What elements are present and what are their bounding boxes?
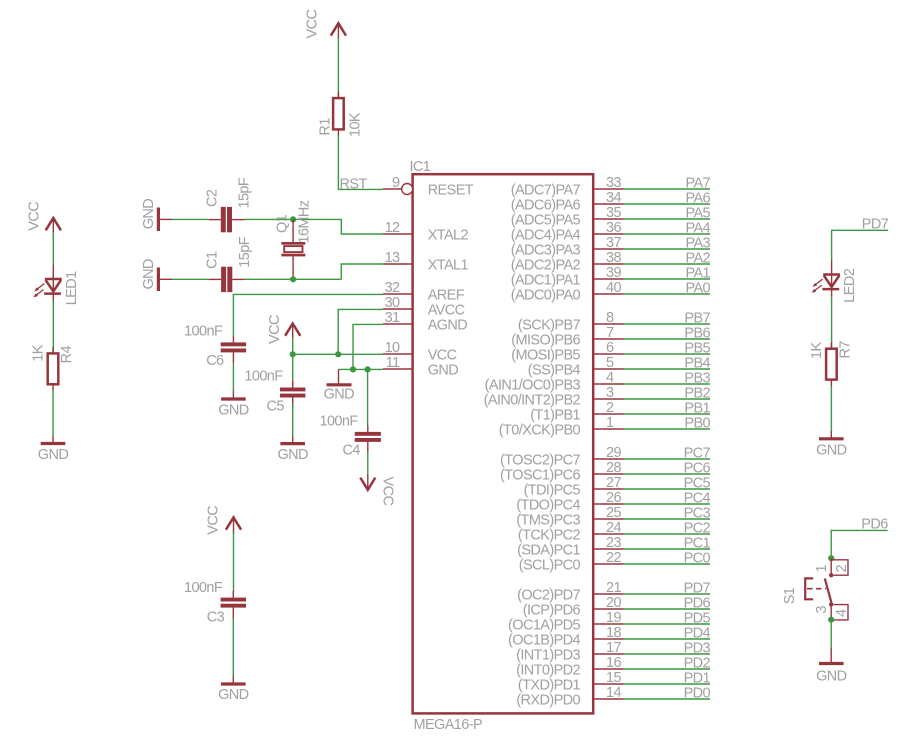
svg-text:15: 15 (606, 670, 621, 686)
LED LED1 (33, 265, 80, 305)
IC1 pin 6 (MOSI)PB5 with wire and net label PB5 (511, 340, 710, 364)
svg-text:GND: GND (141, 199, 157, 230)
svg-text:C4: C4 (343, 443, 361, 459)
svg-text:PA3: PA3 (685, 236, 710, 252)
svg-text:14: 14 (606, 685, 621, 701)
IC1 pin 24 (TCK)PC2 with wire and net label PC2 (518, 520, 711, 544)
capacitor C4 100nF (320, 414, 381, 459)
IC1 pin 34 (ADC6)PA6 with wire and net label PA6 (511, 190, 711, 214)
svg-text:(TOSC1)PC6: (TOSC1)PC6 (500, 467, 580, 483)
svg-text:VCC: VCC (428, 347, 457, 363)
svg-text:PB1: PB1 (684, 401, 710, 417)
svg-text:4: 4 (834, 609, 850, 617)
svg-text:PC7: PC7 (684, 446, 711, 462)
svg-text:13: 13 (385, 250, 400, 266)
svg-text:(INT0)PD2: (INT0)PD2 (516, 662, 580, 678)
power symbol VCC above LED1 (27, 202, 61, 234)
svg-text:16MHz: 16MHz (296, 200, 312, 243)
svg-text:30: 30 (385, 295, 400, 311)
svg-text:PA6: PA6 (685, 191, 710, 207)
svg-text:GND: GND (141, 259, 157, 290)
svg-text:40: 40 (606, 280, 621, 296)
node junction below Q1 (290, 276, 296, 282)
svg-text:100nF: 100nF (244, 369, 283, 385)
resistor R7 1K (809, 341, 854, 386)
svg-text:(ADC0)PA0: (ADC0)PA0 (511, 287, 581, 303)
wire S1 to GND (830, 620, 832, 649)
svg-text:LED2: LED2 (842, 268, 858, 302)
svg-text:RST: RST (340, 176, 368, 192)
ground below C3 (218, 677, 249, 704)
svg-text:(SCL)PC0: (SCL)PC0 (519, 557, 581, 573)
svg-text:(TXD)PD1: (TXD)PD1 (518, 677, 581, 693)
svg-text:1K: 1K (809, 342, 825, 359)
svg-text:(TMS)PC3: (TMS)PC3 (516, 512, 580, 528)
ground at pin 11 (middle) (324, 369, 355, 402)
IC1 pin 1 (T0/XCK)PB0 with wire and net label PB0 (499, 415, 711, 439)
IC1 pin 38 (ADC2)PA2 with wire and net label PA2 (511, 250, 711, 274)
IC1 pin 30 AVCC (383, 295, 465, 319)
IC1 pin 27 (TDI)PC5 with wire and net label PC5 (524, 475, 711, 499)
IC1 pin 11 GND (383, 355, 458, 379)
svg-text:21: 21 (606, 580, 621, 596)
svg-text:GND: GND (38, 447, 69, 463)
capacitor C6 100nF (184, 324, 246, 369)
svg-text:15pF: 15pF (236, 177, 252, 208)
svg-text:PC5: PC5 (684, 476, 711, 492)
ground below C6 (218, 392, 249, 419)
IC1 pin 31 AGND (383, 310, 467, 334)
resistor R1 10K (318, 92, 364, 137)
svg-text:GND: GND (218, 687, 249, 703)
IC1 pin 12 XTAL2 (383, 220, 468, 244)
wire GND to C2 (172, 218, 208, 220)
svg-text:33: 33 (606, 175, 621, 191)
wire VCC arrow down to pin 10 row (292, 338, 294, 354)
node junction VCC row / C5 (290, 351, 296, 357)
svg-text:(ADC1)PA1: (ADC1)PA1 (511, 272, 581, 288)
svg-text:PD5: PD5 (684, 611, 711, 627)
IC1 pin 9 RESET (383, 175, 474, 199)
svg-text:100nF: 100nF (184, 580, 223, 596)
svg-text:PB4: PB4 (684, 356, 710, 372)
IC1 pin 28 (TOSC1)PC6 with wire and net label PC6 (500, 460, 710, 484)
IC1 pin 20 (ICP)PD6 with wire and net label PD6 (523, 595, 711, 619)
svg-text:(ADC4)PA4: (ADC4)PA4 (511, 227, 581, 243)
svg-text:C6: C6 (206, 353, 224, 369)
wire VCC junction down to C5 (292, 354, 294, 381)
IC1 pin 3 (AIN0/INT2)PB2 with wire and net label PB2 (484, 385, 711, 409)
power symbol VCC above C3 (206, 506, 242, 535)
svg-text:GND: GND (428, 362, 459, 378)
ground below R7 (816, 431, 847, 458)
svg-text:PC1: PC1 (684, 536, 711, 552)
svg-text:10K: 10K (348, 112, 364, 137)
resistor R4 1K (31, 344, 75, 391)
svg-text:25: 25 (606, 505, 621, 521)
svg-text:36: 36 (606, 220, 621, 236)
wire GND to C1 (172, 278, 209, 280)
svg-text:PD2: PD2 (684, 656, 711, 672)
IC1 pin 16 (INT0)PD2 with wire and net label PD2 (516, 655, 710, 679)
wire R1 to RESET pin 9, net RST (338, 135, 383, 192)
svg-text:(TOSC2)PC7: (TOSC2)PC7 (500, 452, 580, 468)
svg-text:(OC1A)PD5: (OC1A)PD5 (508, 617, 580, 633)
IC1 pin 37 (ADC3)PA3 with wire and net label PA3 (511, 235, 711, 259)
IC1 pin 10 VCC (383, 340, 457, 364)
svg-text:PC2: PC2 (684, 521, 711, 537)
IC1 pin 21 (OC2)PD7 with wire and net label PD7 (517, 580, 710, 604)
power symbol VCC inverted below C4 (360, 474, 395, 505)
svg-text:C2: C2 (204, 189, 220, 207)
svg-text:PA1: PA1 (685, 266, 710, 282)
svg-text:AGND: AGND (428, 317, 468, 333)
svg-text:PB0: PB0 (684, 416, 710, 432)
svg-text:(ADC5)PA5: (ADC5)PA5 (511, 212, 581, 228)
IC1 pin 33 (ADC7)PA7 with wire and net label PA7 (511, 175, 711, 199)
LED LED2 (812, 261, 858, 303)
svg-text:PD6: PD6 (684, 596, 711, 612)
ground below C5 (277, 436, 308, 463)
svg-text:6: 6 (606, 340, 614, 356)
svg-text:C3: C3 (207, 610, 225, 626)
capacitor C5 100nF (244, 369, 305, 415)
node junction VCC row / AVCC branch (335, 351, 341, 357)
svg-text:PA4: PA4 (685, 221, 710, 237)
svg-text:R4: R4 (59, 346, 75, 364)
svg-text:3: 3 (606, 385, 614, 401)
svg-text:PB7: PB7 (684, 311, 710, 327)
svg-text:GND: GND (277, 447, 308, 463)
svg-text:22: 22 (606, 550, 621, 566)
wire C1 to node and to XTAL1 pin 13 (245, 264, 383, 279)
svg-text:3: 3 (814, 606, 830, 614)
svg-text:(SDA)PC1: (SDA)PC1 (517, 542, 580, 558)
svg-text:MEGA16-P: MEGA16-P (414, 717, 483, 733)
wire LED1 to R4 (52, 301, 54, 353)
svg-text:VCC: VCC (27, 202, 43, 231)
svg-text:VCC: VCC (379, 477, 395, 506)
crystal Q1 16MHz (275, 200, 313, 279)
svg-text:16: 16 (606, 655, 621, 671)
wire VCC to R1 (337, 38, 339, 98)
capacitor C3 100nF (184, 580, 246, 625)
svg-text:(AIN1/OC0)PB3: (AIN1/OC0)PB3 (485, 377, 581, 393)
svg-text:PC6: PC6 (684, 461, 711, 477)
svg-text:(INT1)PD3: (INT1)PD3 (516, 647, 580, 663)
svg-text:(OC1B)PD4: (OC1B)PD4 (508, 632, 580, 648)
wire R4 to GND (52, 390, 54, 437)
svg-text:VCC: VCC (305, 10, 321, 39)
svg-text:(MOSI)PB5: (MOSI)PB5 (511, 347, 580, 363)
svg-text:(T0/XCK)PB0: (T0/XCK)PB0 (499, 422, 581, 438)
IC1 pin 32 AREF (383, 280, 465, 304)
ground left of C1 (rotated) (141, 259, 172, 291)
IC1 pin 39 (ADC1)PA1 with wire and net label PA1 (511, 265, 711, 289)
svg-text:15pF: 15pF (237, 236, 253, 267)
wire C2 to node and to XTAL2 pin 12 (245, 219, 384, 234)
svg-text:PA2: PA2 (685, 251, 710, 267)
svg-text:100nF: 100nF (320, 414, 359, 430)
svg-text:(OC2)PD7: (OC2)PD7 (517, 587, 580, 603)
svg-text:19: 19 (606, 610, 621, 626)
svg-text:PD1: PD1 (684, 671, 711, 687)
svg-text:(ADC3)PA3: (ADC3)PA3 (511, 242, 581, 258)
svg-text:R1: R1 (318, 118, 334, 136)
IC1 pin 19 (OC1A)PD5 with wire and net label PD5 (508, 610, 710, 634)
wire pin 10 row (293, 353, 383, 355)
power symbol VCC above R1 (305, 10, 347, 40)
svg-text:(SS)PB4: (SS)PB4 (528, 362, 581, 378)
svg-text:23: 23 (606, 535, 621, 551)
svg-text:20: 20 (606, 595, 621, 611)
svg-text:(TDI)PC5: (TDI)PC5 (524, 482, 581, 498)
svg-text:2: 2 (606, 400, 614, 416)
svg-text:2: 2 (834, 565, 850, 573)
svg-text:C5: C5 (267, 399, 285, 415)
wire VCC to C3 (233, 532, 235, 592)
svg-text:PB2: PB2 (684, 386, 710, 402)
svg-text:(ADC7)PA7: (ADC7)PA7 (511, 182, 581, 198)
svg-text:26: 26 (606, 490, 621, 506)
svg-text:(TCK)PC2: (TCK)PC2 (518, 527, 581, 543)
svg-text:(T1)PB1: (T1)PB1 (530, 407, 580, 423)
svg-text:11: 11 (386, 355, 400, 371)
svg-text:1: 1 (606, 415, 614, 431)
svg-text:C1: C1 (205, 251, 221, 269)
svg-text:PB5: PB5 (684, 341, 710, 357)
svg-text:IC1: IC1 (410, 159, 431, 175)
svg-text:7: 7 (606, 325, 614, 341)
svg-text:39: 39 (606, 265, 621, 281)
wire C3 to GND (232, 619, 234, 678)
svg-text:1: 1 (814, 565, 830, 573)
IC1 pin 7 (MISO)PB6 with wire and net label PB6 (511, 325, 710, 349)
svg-text:32: 32 (385, 280, 400, 296)
svg-text:VCC: VCC (267, 315, 283, 344)
svg-text:XTAL1: XTAL1 (428, 257, 469, 273)
IC1 pin 15 (TXD)PD1 with wire and net label PD1 (518, 670, 711, 694)
svg-text:AVCC: AVCC (428, 302, 465, 318)
svg-text:9: 9 (392, 175, 400, 191)
svg-text:AREF: AREF (428, 287, 465, 303)
wire AREF pin 32 to C6 (233, 294, 383, 336)
wire C6 to GND (232, 364, 234, 393)
svg-text:R7: R7 (838, 341, 854, 359)
svg-text:34: 34 (606, 190, 621, 206)
IC1 pin 22 (SCL)PC0 with wire and net label PC0 (519, 550, 711, 574)
wire VCC to LED1 (52, 232, 54, 266)
svg-text:28: 28 (606, 460, 621, 476)
IC1 pin 13 XTAL1 (383, 250, 468, 274)
net label PD7 with wire to LED2 (832, 217, 889, 261)
capacitor C2 15pF (204, 177, 252, 232)
IC1 pin 8 (SCK)PB7 with wire and net label PB7 (518, 310, 711, 334)
svg-text:PB3: PB3 (684, 371, 710, 387)
wire AVCC pin 30 branch (338, 309, 383, 354)
ground below S1 (816, 648, 847, 684)
svg-text:XTAL2: XTAL2 (428, 227, 469, 243)
ground below R4 (38, 436, 69, 463)
svg-text:(MISO)PB6: (MISO)PB6 (511, 332, 580, 348)
svg-text:38: 38 (606, 250, 621, 266)
capacitor C1 15pF (205, 236, 254, 292)
svg-text:8: 8 (606, 310, 614, 326)
node junction AGND branch (350, 366, 356, 372)
IC1 pin 14 (RXD)PD0 with wire and net label PD0 (516, 685, 710, 709)
svg-text:24: 24 (606, 520, 621, 536)
svg-text:(ADC2)PA2: (ADC2)PA2 (511, 257, 581, 273)
svg-text:(ADC6)PA6: (ADC6)PA6 (511, 197, 581, 213)
svg-text:PA5: PA5 (685, 206, 710, 222)
wire AGND pin 31 branch (353, 324, 383, 369)
wire GND pin 11 row (339, 368, 384, 370)
svg-text:(AIN0/INT2)PB2: (AIN0/INT2)PB2 (484, 392, 581, 408)
svg-text:S1: S1 (782, 587, 798, 604)
net label PD6 with wire to S1 (831, 517, 888, 558)
IC1 pin 26 (TDO)PC4 with wire and net label PC4 (516, 490, 710, 514)
svg-text:4: 4 (606, 370, 614, 386)
switch S1 (782, 558, 850, 620)
svg-text:10: 10 (385, 340, 400, 356)
svg-text:GND: GND (816, 443, 847, 459)
svg-text:(RXD)PD0: (RXD)PD0 (516, 692, 580, 708)
IC1 pin 40 (ADC0)PA0 with wire and net label PA0 (511, 280, 711, 304)
svg-text:(SCK)PB7: (SCK)PB7 (518, 317, 581, 333)
svg-text:PD3: PD3 (684, 641, 711, 657)
svg-text:GND: GND (218, 402, 249, 418)
svg-text:VCC: VCC (206, 506, 222, 535)
svg-text:27: 27 (606, 475, 621, 491)
svg-text:PA7: PA7 (685, 176, 710, 192)
svg-text:PA0: PA0 (685, 281, 710, 297)
svg-text:5: 5 (606, 355, 614, 371)
node junction C4 branch (365, 366, 371, 372)
svg-text:PC4: PC4 (684, 491, 711, 507)
power symbol VCC middle (pin 10 net) (267, 315, 300, 344)
node junction S1 bottom (828, 617, 834, 623)
IC1 pin 25 (TMS)PC3 with wire and net label PC3 (516, 505, 710, 529)
svg-text:31: 31 (385, 310, 400, 326)
svg-text:Q1: Q1 (275, 214, 291, 233)
wire C4 to VCC inverted (367, 452, 369, 475)
IC1 pin 5 (SS)PB4 with wire and net label PB4 (528, 355, 711, 379)
wire C5 to GND (292, 404, 294, 437)
IC1 pin 2 (T1)PB1 with wire and net label PB1 (530, 400, 710, 424)
svg-text:PD4: PD4 (684, 626, 711, 642)
svg-text:LED1: LED1 (64, 271, 80, 305)
svg-text:GND: GND (324, 386, 355, 402)
node junction S1 top (828, 555, 834, 561)
svg-text:17: 17 (606, 640, 621, 656)
IC1 pin 23 (SDA)PC1 with wire and net label PC1 (517, 535, 710, 559)
svg-text:PD0: PD0 (684, 686, 711, 702)
svg-text:PC3: PC3 (684, 506, 711, 522)
IC1 pin 29 (TOSC2)PC7 with wire and net label PC7 (500, 445, 710, 469)
IC1 pin 36 (ADC4)PA4 with wire and net label PA4 (511, 220, 711, 244)
svg-text:29: 29 (606, 445, 621, 461)
IC U1: IC1 MEGA16-P box (410, 159, 594, 733)
svg-text:PB6: PB6 (684, 326, 710, 342)
svg-text:PC0: PC0 (684, 551, 711, 567)
svg-text:100nF: 100nF (184, 324, 223, 340)
svg-text:18: 18 (606, 625, 621, 641)
wire R7 to GND (830, 386, 832, 432)
svg-text:RESET: RESET (428, 182, 474, 198)
IC1 pin 4 (AIN1/OC0)PB3 with wire and net label PB3 (485, 370, 711, 394)
svg-text:12: 12 (385, 220, 400, 236)
ground left of C2 (rotated) (141, 199, 172, 231)
svg-text:1K: 1K (31, 344, 47, 361)
svg-text:37: 37 (606, 235, 621, 251)
IC1 pin 18 (OC1B)PD4 with wire and net label PD4 (508, 625, 710, 649)
svg-text:(ICP)PD6: (ICP)PD6 (523, 602, 581, 618)
IC1 pin 17 (INT1)PD3 with wire and net label PD3 (516, 640, 710, 664)
node junction above Q1 (290, 216, 296, 222)
svg-text:GND: GND (816, 668, 847, 684)
svg-text:(TDO)PC4: (TDO)PC4 (516, 497, 580, 513)
wire pin 11 junction down to C4 (367, 369, 369, 426)
wire LED2 to R7 (831, 296, 833, 349)
IC1 pin 35 (ADC5)PA5 with wire and net label PA5 (511, 205, 711, 229)
svg-text:35: 35 (606, 205, 621, 221)
svg-text:PD7: PD7 (684, 581, 711, 597)
